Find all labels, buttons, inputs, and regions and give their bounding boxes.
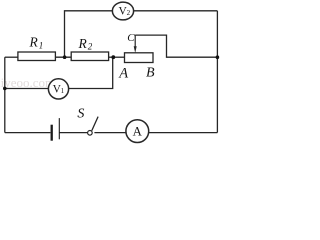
svg-text:B: B xyxy=(146,66,155,81)
svg-text:S: S xyxy=(77,106,84,121)
svg-text:A: A xyxy=(118,66,128,82)
svg-text:A: A xyxy=(133,125,143,139)
svg-text:C: C xyxy=(127,32,135,44)
svg-text:liyeoo.com: liyeoo.com xyxy=(0,75,55,90)
svg-text:R: R xyxy=(78,36,88,51)
svg-text:1: 1 xyxy=(39,41,44,51)
svg-text:2: 2 xyxy=(88,41,93,51)
svg-text:2: 2 xyxy=(127,9,131,17)
svg-text:R: R xyxy=(29,34,39,49)
svg-text:1: 1 xyxy=(61,87,65,95)
